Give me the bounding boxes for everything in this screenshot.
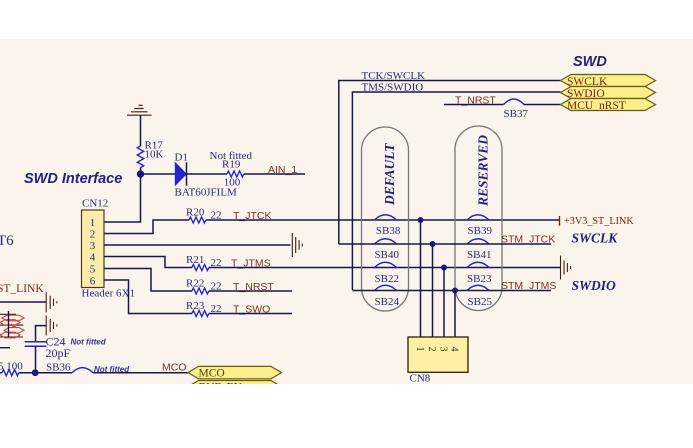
svg-text:6: 6	[90, 276, 96, 288]
wire pin4 to R21	[104, 257, 192, 268]
svg-text:SB40: SB40	[375, 249, 400, 261]
wire R17 to node	[140, 168, 142, 174]
solder bridge SB40	[375, 239, 400, 261]
svg-text:1: 1	[414, 347, 425, 352]
svg-text:SB41: SB41	[467, 249, 491, 261]
wire C24 to node	[35, 346, 37, 372]
svg-text:SWDIO: SWDIO	[572, 278, 617, 293]
svg-text:T6: T6	[0, 233, 14, 249]
svg-text:R19: R19	[222, 159, 241, 171]
node junction C24/R/SB36	[32, 369, 39, 376]
wire D1 to R19	[187, 173, 228, 175]
svg-text:2: 2	[90, 229, 96, 241]
svg-text:TMS/SWDIO: TMS/SWDIO	[362, 81, 424, 93]
svg-text:D1: D1	[175, 152, 188, 164]
svg-text:10K: 10K	[145, 149, 164, 161]
svg-text:SB24: SB24	[375, 296, 400, 308]
wire C24 to ground 2	[36, 326, 47, 342]
svg-text:R23: R23	[186, 300, 205, 312]
capacitor C24 20pF Not fitted	[25, 335, 107, 361]
wire pin6 to R23	[104, 280, 192, 314]
svg-text:R21: R21	[186, 254, 204, 266]
solder bridge SB41	[467, 239, 491, 261]
node row D to CN8 pin4	[452, 288, 458, 338]
svg-text:100: 100	[224, 177, 241, 189]
ground 1	[46, 292, 57, 312]
node row B to CN8 pin2	[430, 241, 436, 337]
svg-text:4: 4	[449, 347, 460, 352]
resistor R23 22	[186, 300, 222, 317]
wire R19 to AIN_1	[244, 173, 305, 175]
svg-text:+3V3_ST_LINK: +3V3_ST_LINK	[564, 216, 634, 227]
resistor R35 100 (cut)	[0, 361, 23, 376]
resistor R19 100 Not fitted	[210, 150, 253, 189]
svg-text:MCU_nRST: MCU_nRST	[567, 100, 626, 112]
solder bridge SB25	[467, 285, 492, 308]
svg-text:ST_LINK: ST_LINK	[0, 283, 44, 295]
resistor R20 22	[186, 207, 222, 224]
DEFAULT option box	[362, 127, 409, 311]
svg-text:3: 3	[90, 240, 96, 252]
svg-text:CN8: CN8	[410, 373, 431, 385]
svg-text:Not fitted: Not fitted	[71, 338, 107, 347]
resistor R22 22	[186, 278, 222, 295]
svg-text:R20: R20	[186, 207, 205, 219]
wire SB37 to MCU_nRST flag	[524, 104, 561, 106]
svg-text:MCO: MCO	[162, 362, 187, 374]
svg-text:2: 2	[426, 347, 437, 352]
node junction R17/D1/pin1	[137, 170, 144, 177]
wire pin3 to ground	[104, 244, 291, 246]
net flag MCU_nRST	[561, 99, 656, 112]
net flag SWDIO	[561, 87, 656, 100]
svg-text:AIN_1: AIN_1	[268, 164, 297, 176]
svg-text:RESERVED: RESERVED	[476, 135, 491, 207]
svg-text:SB38: SB38	[376, 225, 401, 237]
svg-text:4: 4	[90, 252, 96, 264]
wire T_NRST to SB37	[444, 104, 504, 106]
wire R23 to end	[209, 313, 292, 315]
svg-text:3: 3	[438, 347, 449, 352]
diode D1 BAT60JFILM	[175, 152, 238, 199]
wire row A through SB38 SB39 to +3V3	[206, 219, 560, 221]
solder bridge SB23	[467, 262, 492, 285]
solder bridge SB38	[375, 215, 401, 237]
wire node to SB36	[35, 372, 72, 374]
svg-text:SB25: SB25	[468, 296, 493, 308]
svg-text:MCO: MCO	[199, 368, 225, 380]
solder bridge SB36 Not fitted	[46, 362, 130, 375]
svg-text:CN12: CN12	[82, 198, 108, 210]
svg-text:R22: R22	[186, 278, 204, 290]
wire SB36 to MCO flag	[93, 372, 188, 374]
wire R to node	[0, 372, 35, 374]
node row A to CN8 pin1	[418, 217, 424, 337]
connector CN8	[408, 337, 468, 385]
svg-text:SB39: SB39	[468, 225, 493, 237]
svg-text:DEFAULT: DEFAULT	[382, 143, 397, 206]
net flag SWCLK	[561, 75, 656, 88]
wire IC pin vertical	[8, 311, 10, 337]
wire node down to CN12 pin1	[104, 174, 141, 222]
wire to ground 1	[0, 301, 46, 303]
wire row C through SB22 SB23 to ground	[209, 267, 560, 269]
resistor R21 22	[186, 254, 222, 271]
wire pin2 to R20	[104, 220, 189, 234]
wire TMS/SWDIO	[352, 92, 560, 290]
wire TCK/SWCLK	[339, 81, 561, 245]
svg-text:SWD: SWD	[573, 54, 607, 70]
wire row D SB24 SB25 to STM_JTMS	[352, 290, 551, 292]
solder bridge SB37	[504, 99, 529, 120]
svg-text:Header 6X1: Header 6X1	[82, 288, 135, 300]
wire R22 to end	[209, 290, 292, 292]
ground row C	[561, 256, 571, 280]
resistor R17	[137, 140, 163, 168]
svg-text:SWD Interface: SWD Interface	[24, 171, 122, 187]
net flag BUF_EN (partially hidden)	[188, 381, 282, 394]
svg-text:STM_JTCK: STM_JTCK	[501, 234, 555, 246]
svg-text:SB23: SB23	[467, 273, 492, 285]
solder bridge SB22	[375, 262, 399, 285]
RESERVED option box	[455, 126, 502, 311]
svg-text:SB22: SB22	[375, 273, 399, 285]
svg-text:1: 1	[90, 217, 96, 229]
ground	[127, 105, 152, 115]
svg-text:20pF: 20pF	[46, 346, 71, 360]
ground 2	[46, 316, 57, 336]
svg-text:5: 5	[90, 264, 96, 276]
svg-text:SB37: SB37	[504, 108, 529, 120]
power flag +3V3_ST_LINK	[560, 216, 635, 227]
svg-text:TCK/SWCLK: TCK/SWCLK	[362, 70, 426, 82]
wire pin5 to R22	[104, 269, 192, 292]
connector CN12 Header 6X1	[82, 198, 135, 300]
svg-text:SWCLK: SWCLK	[572, 230, 619, 245]
wire node to D1	[141, 173, 176, 175]
svg-text:5 100: 5 100	[0, 361, 23, 373]
wire IC pin stub	[0, 347, 10, 349]
net flag MCO	[188, 366, 282, 379]
svg-text:SB36: SB36	[46, 362, 71, 374]
wire ground to R17	[140, 115, 142, 146]
IC fragment U2 (red hatched, cut off)	[0, 314, 24, 338]
svg-text:STM_JTMS: STM_JTMS	[501, 280, 556, 292]
node row C to CN8 pin3	[441, 265, 447, 338]
solder bridge SB24	[375, 285, 400, 308]
solder bridge SB39	[467, 215, 492, 237]
wire row B SB40 SB41 to STM_JTCK	[339, 243, 551, 245]
ground pin3	[292, 233, 302, 257]
